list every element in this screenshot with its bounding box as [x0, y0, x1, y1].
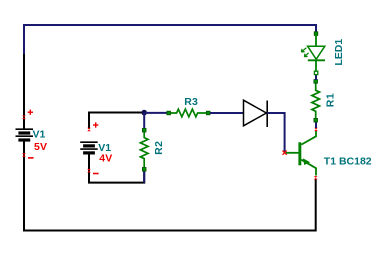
svg-text:V1: V1: [33, 129, 46, 141]
pin marker transistor base (red x): [283, 151, 287, 155]
pin marker collector junction: [314, 128, 318, 131]
node junction at R2 top: [141, 110, 147, 116]
svg-text:R2: R2: [153, 140, 165, 154]
wire R2 bottom stub (navy): [143, 171, 145, 183]
transistor T1 BC182: [286, 131, 316, 176]
pin marker battery V1 4V +: [87, 128, 91, 132]
wire node to R2 (navy stub): [143, 113, 145, 130]
wire diode to transistor base (navy): [267, 113, 284, 152]
battery V1 4V plus sign: [93, 122, 98, 127]
battery V1 4V minus sign: [93, 173, 99, 175]
resistor R1: [312, 80, 320, 122]
label V1 (5V battery): [33, 129, 46, 141]
battery V1 5V plus sign: [28, 110, 33, 115]
svg-text:LED1: LED1: [333, 39, 345, 66]
pin marker battery V1 -: [22, 153, 26, 157]
svg-text:T1 BC182: T1 BC182: [324, 155, 372, 167]
LED light arrows: [301, 48, 306, 52]
label V1 (4V battery): [98, 142, 111, 154]
diode D1: [244, 100, 268, 127]
pin marker battery V1 4V -: [87, 169, 91, 173]
resistor R3: [167, 109, 210, 117]
value 5V: [34, 141, 47, 153]
LED LED1: [301, 32, 325, 75]
svg-text:R3: R3: [184, 96, 198, 108]
wire top run (battery V1+ to LED1 anode, navy): [24, 25, 316, 55]
svg-text:5V: 5V: [34, 141, 47, 153]
resistor R2: [140, 128, 148, 171]
value 4V: [99, 153, 112, 165]
svg-text:4V: 4V: [99, 153, 112, 165]
pin marker emitter junction: [314, 176, 318, 179]
label R3: [184, 96, 198, 108]
wire left vertical lower + bottom run + right riser (ground return): [24, 140, 316, 231]
wire R3 to diode (navy): [210, 112, 244, 114]
wire LED1 cathode to R1 (navy stub): [315, 75, 317, 81]
wire left vertical upper (to battery V1 +): [23, 54, 25, 129]
svg-text:R1: R1: [325, 93, 337, 107]
battery V1 4V: [80, 142, 98, 153]
label R2 (rotated): [153, 140, 165, 154]
wire inner loop (battery V1 4V loop, black): [89, 113, 144, 183]
label T1 BC182: [324, 155, 372, 167]
pin marker battery V1 +: [22, 116, 26, 120]
battery V1 5V: [16, 129, 34, 140]
label R1 (rotated): [325, 93, 337, 107]
wire R1 to collector (navy stub): [315, 122, 317, 128]
battery V1 5V minus sign: [28, 157, 34, 159]
label LED1 (rotated): [333, 39, 345, 66]
wire node to R3 (navy): [144, 112, 167, 114]
